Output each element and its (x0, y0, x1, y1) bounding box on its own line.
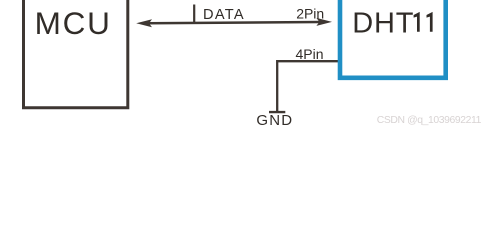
svg-text:4Pin: 4Pin (296, 46, 324, 62)
svg-text:DATA: DATA (203, 7, 245, 23)
svg-text:CSDN @q_1039692211: CSDN @q_1039692211 (377, 115, 482, 126)
svg-text:2Pin: 2Pin (296, 6, 324, 22)
svg-text:MCU: MCU (35, 5, 112, 41)
svg-text:GND: GND (256, 112, 293, 129)
svg-text:DHT: DHT (352, 7, 414, 39)
